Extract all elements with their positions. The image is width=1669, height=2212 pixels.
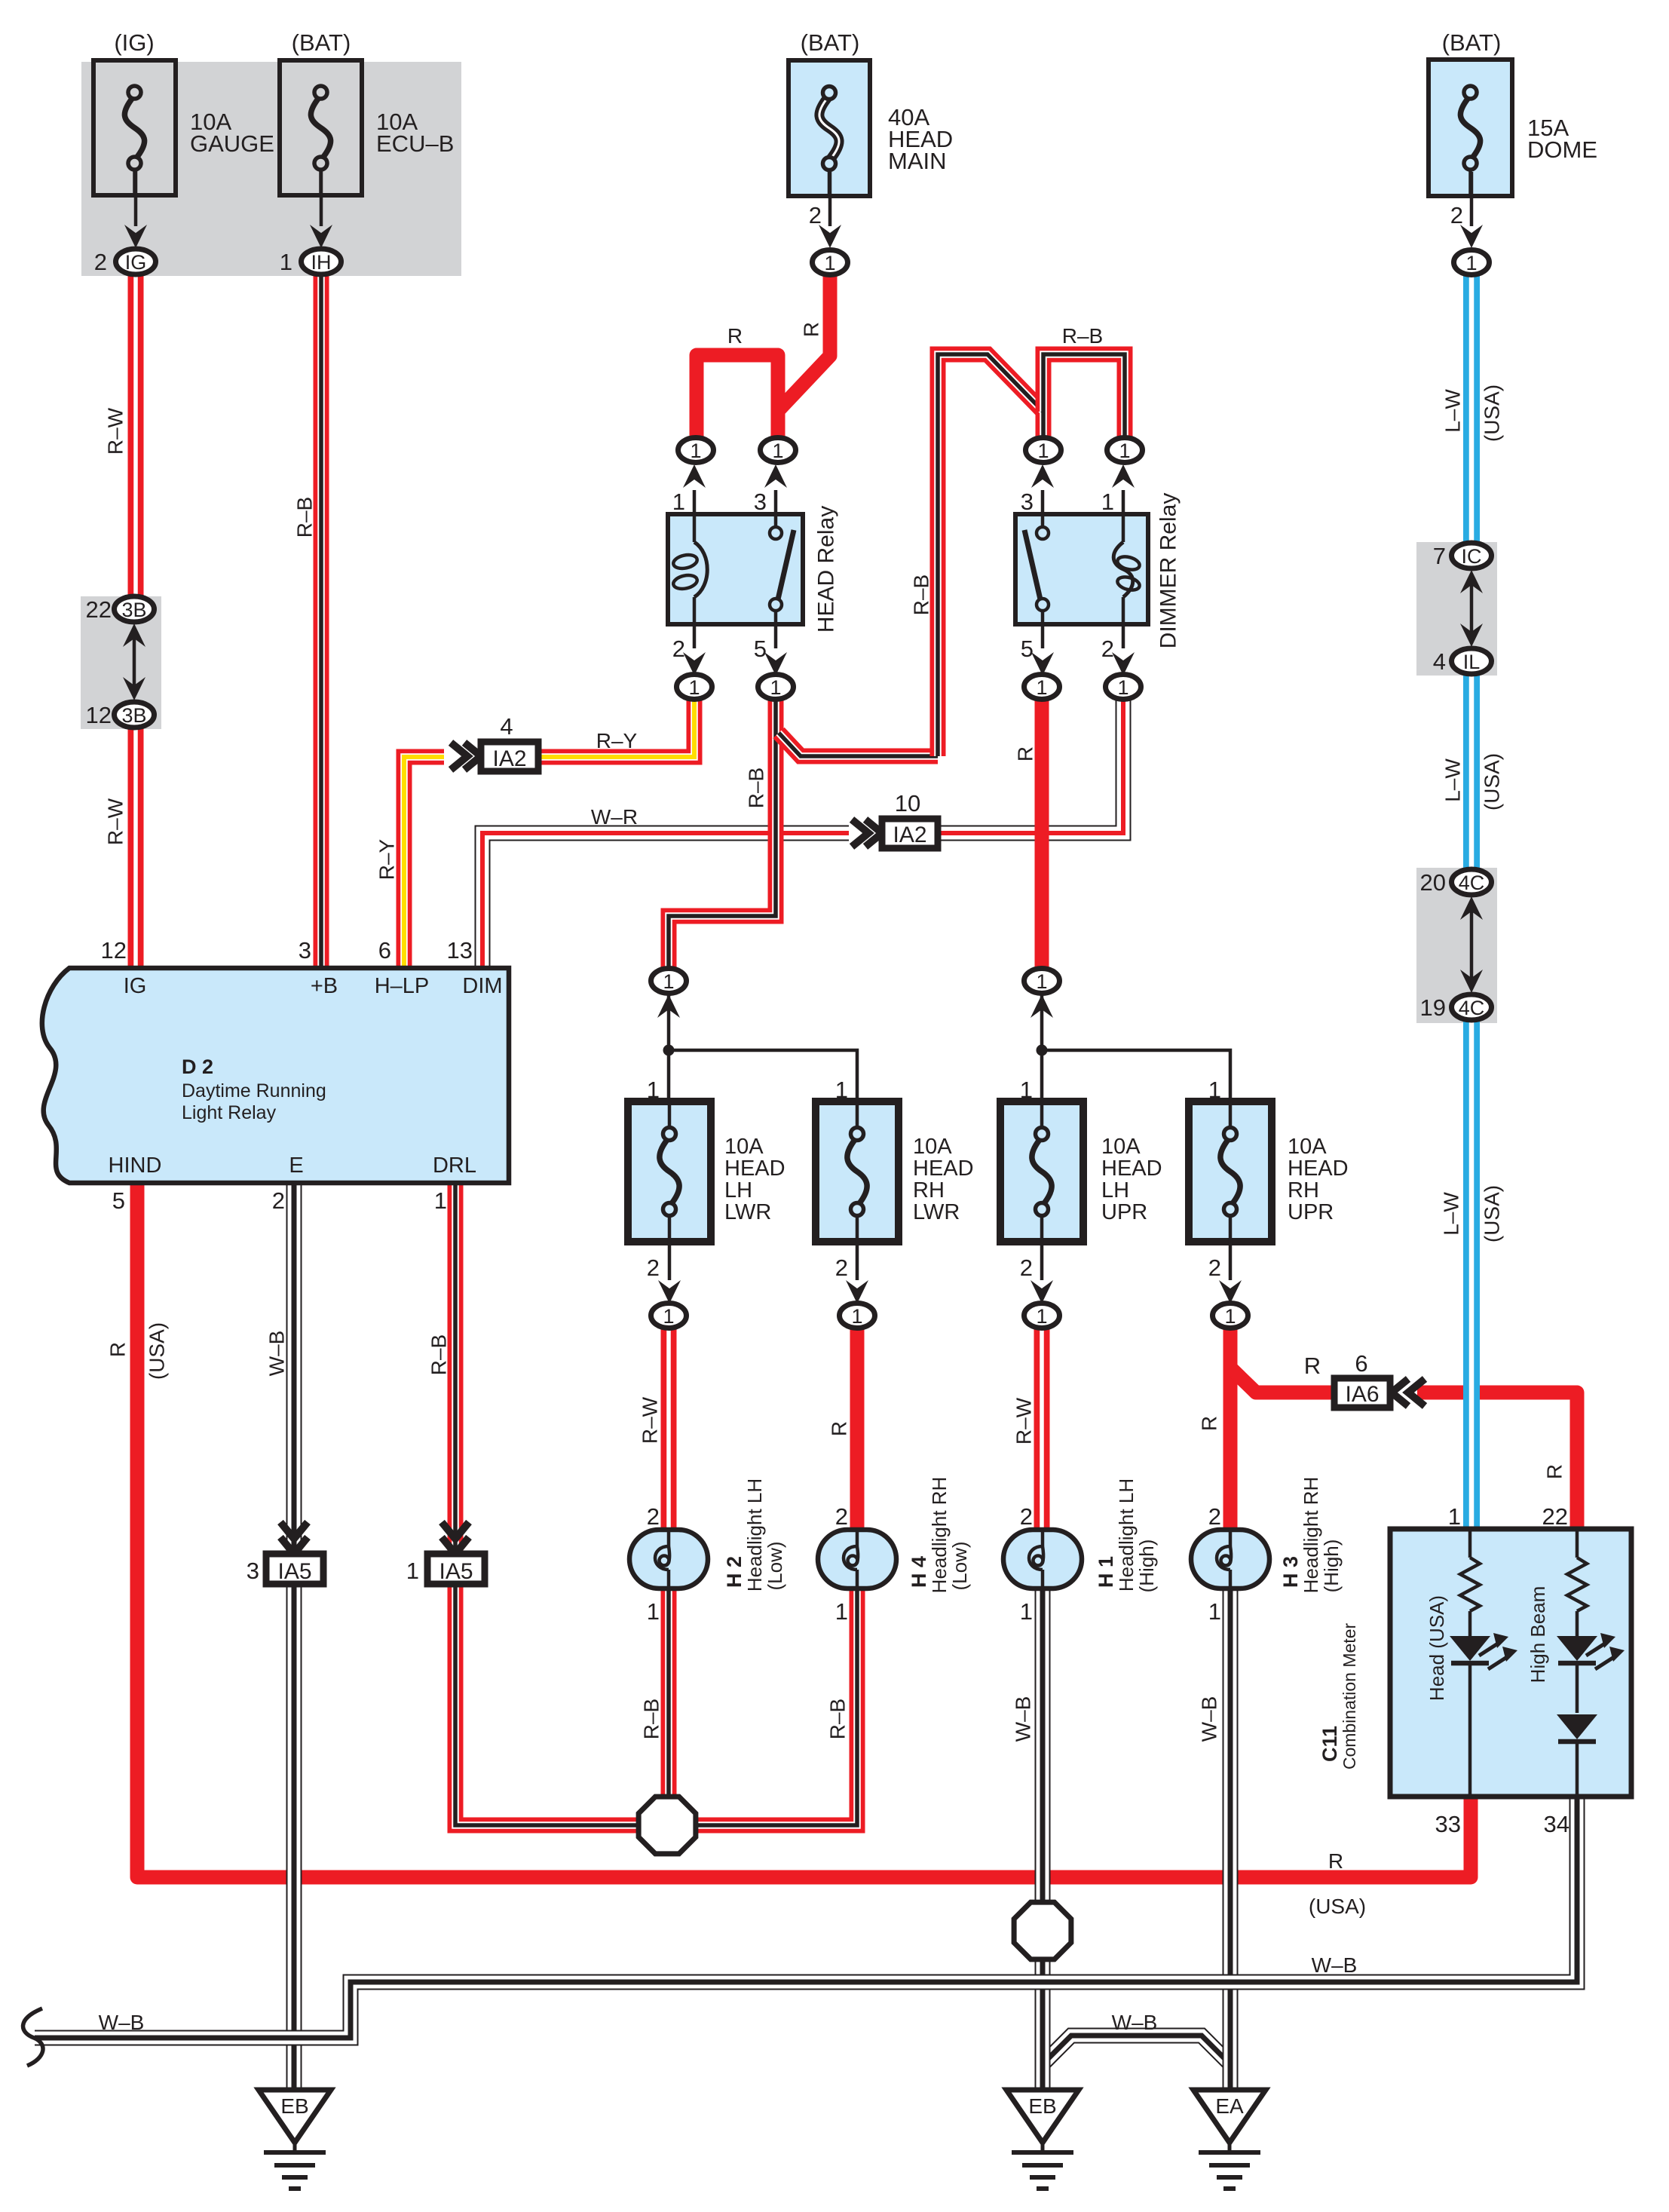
- svg-text:1: 1: [835, 1598, 848, 1625]
- svg-text:5: 5: [754, 636, 767, 662]
- ground EB left: [259, 2090, 331, 2189]
- label R-Y vertical: [375, 838, 399, 880]
- pin 1 HEAD relay with arrow and oval: [672, 464, 706, 515]
- wire W-B headlight H1 pin 1 through octagon to ground EB: [1035, 1589, 1051, 2090]
- LED Head (USA) inside C11: [1450, 1633, 1517, 1797]
- svg-text:1: 1: [1036, 1305, 1047, 1328]
- svg-text:(USA): (USA): [145, 1322, 169, 1380]
- svg-text:H 1: H 1: [1095, 1556, 1117, 1588]
- connector oval 1 under DOME fuse: [1454, 250, 1490, 275]
- svg-text:6: 6: [1355, 1350, 1367, 1377]
- svg-text:1: 1: [1020, 1077, 1033, 1103]
- wire R-W HEAD LH LWR fuse to headlight H2: [661, 1327, 677, 1530]
- wire R 40A HEAD MAIN to HEAD relay pins 1 and 3: [697, 273, 830, 439]
- svg-text:2: 2: [1450, 202, 1463, 228]
- label L-W (USA) lower: [1440, 1185, 1504, 1242]
- double arrow between 3B connectors: [123, 623, 145, 700]
- svg-text:1: 1: [672, 489, 685, 515]
- svg-text:LH: LH: [724, 1178, 752, 1203]
- svg-text:1: 1: [1036, 970, 1047, 993]
- svg-text:Light Relay: Light Relay: [182, 1102, 277, 1123]
- label R dimmer pin5 wire: [1014, 746, 1037, 761]
- label R-B right riser: [910, 574, 933, 615]
- wire W-B bridge between EB and EA grounds: [1043, 2036, 1230, 2064]
- connector oval 1 below HEAD relay pin 2: [677, 675, 712, 700]
- label W-B E wire: [265, 1331, 289, 1377]
- svg-text:DOME: DOME: [1527, 136, 1597, 163]
- svg-text:R–W: R–W: [1012, 1397, 1036, 1445]
- resistor High Beam inside C11: [1567, 1529, 1587, 1636]
- svg-text:GAUGE: GAUGE: [190, 130, 274, 157]
- svg-text:1: 1: [772, 440, 783, 462]
- node octagon joint W-B: [1014, 1902, 1071, 1959]
- connector oval 20 4C: [1420, 869, 1492, 896]
- wire W-B headlight H3 pin 1 to ground EA: [1223, 1589, 1239, 2090]
- svg-text:2: 2: [94, 249, 107, 275]
- svg-text:LWR: LWR: [724, 1200, 771, 1224]
- headlight bulb H2: [629, 1503, 708, 1625]
- svg-text:3: 3: [247, 1558, 259, 1584]
- svg-text:EB: EB: [1028, 2094, 1056, 2118]
- svg-text:HEAD: HEAD: [913, 1157, 974, 1181]
- connector oval 1 under 40A fuse: [813, 250, 848, 275]
- wire R branch to IA6 connector: [1230, 1368, 1336, 1392]
- wire R-B fuse ECU-B IH to D2 pin 3 +B: [314, 273, 329, 968]
- wire L-W connector IL to connector 4C-20: [1463, 672, 1480, 870]
- svg-text:R–B: R–B: [427, 1334, 451, 1375]
- svg-text:D 2: D 2: [182, 1055, 213, 1078]
- pin 2 arrow from GAUGE fuse into connector IG: [94, 171, 147, 275]
- svg-text:(USA): (USA): [1309, 1895, 1366, 1918]
- svg-text:R: R: [1198, 1416, 1221, 1431]
- pin 5 DIMMER relay with arrow and oval: [1021, 624, 1054, 676]
- wire W-B C11 pin 34 long run to left: [35, 1797, 1577, 2038]
- svg-text:1: 1: [1101, 489, 1114, 515]
- svg-text:L–W: L–W: [1440, 1192, 1463, 1236]
- pin numbers 1 above headlight fuses: [647, 1077, 1221, 1103]
- svg-text:LH: LH: [1101, 1178, 1129, 1203]
- fuse 10A HEAD RH UPR: [1189, 1101, 1349, 1242]
- svg-text:12: 12: [86, 702, 112, 728]
- svg-text:1: 1: [1208, 1598, 1221, 1625]
- svg-text:W–B: W–B: [1312, 1953, 1358, 1977]
- wire break squiggle W-B left end: [23, 2008, 43, 2066]
- svg-text:1: 1: [824, 252, 835, 274]
- pin 2 arrows below headlight fuses: [647, 1242, 1242, 1304]
- pin 5 HEAD relay with arrow and oval: [754, 624, 787, 676]
- svg-text:R–W: R–W: [104, 407, 127, 455]
- svg-text:5: 5: [112, 1187, 125, 1214]
- label W-B below H3: [1198, 1696, 1221, 1742]
- label H2 Headlight LH (Low): [723, 1478, 786, 1592]
- connector oval 4 IL: [1433, 648, 1492, 675]
- svg-text:R–B: R–B: [293, 497, 317, 538]
- relay HEAD Relay box: [668, 514, 803, 624]
- svg-text:1: 1: [1465, 252, 1477, 274]
- svg-text:2: 2: [1101, 636, 1114, 662]
- svg-text:H–LP: H–LP: [375, 974, 430, 998]
- label R C11 pin 22 wire: [1543, 1464, 1566, 1479]
- power tag (BAT) for ECU-B: [292, 29, 351, 56]
- connector oval 7 IC: [1433, 543, 1492, 569]
- svg-text:2: 2: [809, 202, 822, 228]
- label H1 Headlight LH (High): [1095, 1478, 1158, 1593]
- label R-B DRL wire: [427, 1334, 451, 1375]
- svg-text:IA2: IA2: [492, 746, 526, 771]
- svg-text:IA2: IA2: [893, 823, 926, 847]
- svg-text:EA: EA: [1215, 2094, 1244, 2118]
- label H4 Headlight RH (Low): [908, 1477, 971, 1594]
- svg-text:2: 2: [672, 636, 685, 662]
- connector oval 19 4C: [1420, 994, 1492, 1021]
- svg-text:(USA): (USA): [1481, 1185, 1504, 1242]
- connector oval 1 above HEAD LH fuses junction: [651, 969, 687, 1019]
- gray connector block 4C: [1416, 868, 1497, 1023]
- label HEAD Relay: [814, 506, 839, 633]
- LED High Beam inside C11: [1557, 1633, 1625, 1713]
- label R-B below H4: [826, 1699, 850, 1739]
- svg-text:2: 2: [835, 1503, 848, 1530]
- svg-text:3: 3: [1021, 489, 1034, 515]
- fuse 10A HEAD LH UPR: [1000, 1101, 1162, 1242]
- connector IA5-3: [247, 1522, 323, 1584]
- label R-W above H1: [1012, 1397, 1036, 1445]
- svg-text:Daytime Running: Daytime Running: [182, 1080, 326, 1101]
- svg-text:4: 4: [1433, 648, 1446, 675]
- label R-Y horizontal: [596, 729, 638, 752]
- wire W-R D2 pin 13 DIM to IA2-10 to DIMMER relay pin 2: [482, 697, 1123, 968]
- wire R HEAD RH LWR fuse to headlight H4: [850, 1327, 865, 1530]
- label R at IA6: [1304, 1353, 1321, 1379]
- pin 2 arrow from 40A fuse into connector 1: [809, 172, 841, 248]
- svg-text:1: 1: [647, 1598, 660, 1625]
- svg-text:HIND: HIND: [109, 1153, 162, 1178]
- svg-text:3: 3: [754, 489, 767, 515]
- svg-text:(BAT): (BAT): [292, 29, 351, 56]
- svg-text:Headlight RH: Headlight RH: [928, 1477, 951, 1594]
- svg-text:LWR: LWR: [913, 1200, 960, 1224]
- svg-text:R: R: [106, 1342, 130, 1357]
- pin 2 HEAD relay with arrow and oval: [672, 624, 706, 676]
- svg-text:1: 1: [835, 1077, 848, 1103]
- svg-text:10A: 10A: [1288, 1135, 1327, 1159]
- node junction dot LH UPR: [1037, 1045, 1048, 1056]
- svg-text:R–B: R–B: [640, 1699, 663, 1739]
- resistor Head (USA) inside C11: [1460, 1529, 1480, 1636]
- svg-text:1: 1: [434, 1187, 447, 1214]
- fuse 10A GAUGE: [93, 60, 274, 195]
- svg-text:22: 22: [86, 596, 112, 623]
- wire R-W junction oval to HEAD LH LWR fuse pin 1: [667, 991, 671, 1048]
- connector oval 1 below DIMMER relay pin 2: [1106, 675, 1141, 700]
- connector oval 1 above HEAD relay pin 1: [678, 438, 714, 463]
- gray connector block (top fuses IG/BAT): [81, 62, 461, 276]
- svg-text:R: R: [1328, 1849, 1343, 1873]
- svg-text:1: 1: [406, 1558, 419, 1584]
- pin 1 DIMMER relay with arrow and oval: [1101, 464, 1135, 515]
- connector IA6-6: [1334, 1350, 1425, 1408]
- svg-text:IH: IH: [311, 251, 332, 274]
- svg-text:Headlight LH: Headlight LH: [1115, 1478, 1138, 1592]
- svg-text:1: 1: [770, 676, 781, 699]
- svg-text:13: 13: [447, 937, 473, 964]
- pin numbers on C11: [1435, 1503, 1569, 1837]
- svg-text:(High): (High): [1320, 1540, 1343, 1593]
- svg-text:MAIN: MAIN: [888, 148, 947, 174]
- svg-text:RH: RH: [1288, 1178, 1319, 1203]
- label W-B long run: [1312, 1953, 1358, 1977]
- svg-text:(Low): (Low): [764, 1541, 786, 1590]
- svg-text:1: 1: [1117, 676, 1128, 699]
- svg-text:(BAT): (BAT): [801, 29, 860, 56]
- label R-W lower segment: [104, 798, 127, 845]
- svg-text:4C: 4C: [1459, 997, 1485, 1019]
- label W-B left horizontal: [99, 2011, 145, 2034]
- svg-text:Headlight LH: Headlight LH: [743, 1478, 766, 1592]
- svg-text:12: 12: [101, 937, 127, 964]
- svg-text:1: 1: [1020, 1598, 1033, 1625]
- svg-text:UPR: UPR: [1288, 1200, 1334, 1224]
- svg-text:H 3: H 3: [1279, 1556, 1302, 1588]
- svg-text:C11: C11: [1318, 1726, 1341, 1762]
- svg-text:H 2: H 2: [723, 1556, 746, 1588]
- svg-text:34: 34: [1544, 1811, 1569, 1837]
- connector oval 1 above DIMMER relay pin 3: [1026, 438, 1061, 463]
- svg-text:3B: 3B: [121, 599, 146, 621]
- svg-text:1: 1: [1224, 1305, 1236, 1328]
- label R (USA) HIND wire: [106, 1322, 169, 1380]
- label Head (USA): [1426, 1595, 1448, 1701]
- svg-text:20: 20: [1420, 869, 1446, 896]
- svg-text:(BAT): (BAT): [1442, 29, 1502, 56]
- svg-text:IA6: IA6: [1345, 1382, 1379, 1407]
- connector IA2-4: [451, 713, 538, 771]
- label R-B head relay output: [745, 767, 768, 808]
- label R 40A feed diagonal: [800, 322, 823, 337]
- svg-text:10A: 10A: [913, 1135, 952, 1159]
- wire R-B headlight H2 pin 1 down to octagon joint: [661, 1589, 677, 1795]
- svg-text:1: 1: [1208, 1077, 1221, 1103]
- label DIMMER Relay: [1156, 493, 1181, 649]
- svg-text:R–B: R–B: [910, 574, 933, 615]
- svg-text:1: 1: [1119, 440, 1130, 462]
- wire black junction to RH LWR fuse pin 1: [669, 1050, 857, 1101]
- svg-text:HEAD: HEAD: [1288, 1157, 1349, 1181]
- svg-text:2: 2: [1208, 1255, 1221, 1281]
- svg-text:7: 7: [1433, 543, 1446, 569]
- wire R HIND D2 pin 5 down and across to C11 pin 33: [137, 1183, 1471, 1877]
- svg-text:IA5: IA5: [277, 1559, 311, 1584]
- power tag (BAT) for DOME: [1442, 29, 1502, 56]
- connector oval 1 above DIMMER relay pin 1: [1107, 438, 1143, 463]
- svg-text:3B: 3B: [121, 704, 146, 727]
- double arrow between 4C connectors: [1460, 896, 1483, 993]
- label R-B +B wire: [293, 497, 317, 538]
- pin 2 arrow from DOME fuse into connector 1: [1450, 172, 1483, 248]
- svg-text:(USA): (USA): [1481, 753, 1504, 810]
- connector oval 1 below DIMMER relay pin 5: [1024, 675, 1060, 700]
- svg-text:Headlight RH: Headlight RH: [1300, 1477, 1322, 1594]
- connector oval 22 3B: [86, 596, 155, 623]
- wire R-B right riser up to DIMMER relay feed: [938, 354, 1043, 756]
- connector oval 1 above HEAD UPR fuses junction: [1024, 969, 1060, 1019]
- wire R HEAD RH UPR fuse to headlight H3 with IA6 branch: [1223, 1327, 1238, 1530]
- connector IA5-1: [406, 1522, 485, 1584]
- fuse 10A ECU-B: [280, 60, 454, 195]
- svg-text:IA5: IA5: [439, 1559, 473, 1584]
- fuse 15A DOME: [1429, 60, 1597, 196]
- svg-text:1: 1: [663, 970, 674, 993]
- wire R-W 3B-12 to D2 pin 12 IG: [128, 726, 144, 968]
- svg-text:1: 1: [688, 676, 700, 699]
- svg-text:4: 4: [500, 713, 513, 740]
- label R above H3: [1198, 1416, 1221, 1431]
- label W-R horizontal: [591, 805, 638, 829]
- node octagon joint R-B: [639, 1797, 696, 1854]
- svg-text:L–W: L–W: [1441, 758, 1465, 802]
- svg-text:1: 1: [1448, 1503, 1461, 1530]
- svg-text:22: 22: [1542, 1503, 1568, 1530]
- relay DIMMER Relay box: [1015, 514, 1148, 624]
- connector oval IH: [302, 249, 341, 274]
- connector oval 12 3B: [86, 702, 155, 728]
- label C11 Combination Meter: [1318, 1623, 1359, 1770]
- svg-text:1: 1: [280, 249, 292, 275]
- svg-text:IG: IG: [125, 251, 147, 274]
- svg-text:2: 2: [647, 1503, 660, 1530]
- label W-B below H1: [1012, 1696, 1035, 1742]
- svg-text:W–B: W–B: [1112, 2011, 1158, 2034]
- pin 3 HEAD relay with arrow and oval: [754, 464, 787, 515]
- svg-text:DIM: DIM: [462, 974, 502, 998]
- svg-text:1: 1: [647, 1077, 660, 1103]
- svg-text:10A: 10A: [1101, 1135, 1141, 1159]
- svg-text:ECU–B: ECU–B: [376, 130, 454, 157]
- connector oval 1 above HEAD relay pin 3: [761, 438, 796, 463]
- svg-text:HEAD: HEAD: [724, 1157, 786, 1181]
- wire L-W connector 4C-19 down to C11 pin 1: [1463, 1019, 1480, 1529]
- pin 2 DIMMER relay with arrow and oval: [1101, 624, 1135, 676]
- svg-text:DRL: DRL: [433, 1153, 476, 1178]
- label R-W above H2: [639, 1396, 662, 1444]
- svg-text:33: 33: [1435, 1811, 1461, 1837]
- label R-B top link: [1062, 324, 1103, 348]
- svg-text:3: 3: [299, 937, 311, 964]
- svg-text:1: 1: [1037, 440, 1049, 462]
- label High Beam: [1527, 1586, 1549, 1684]
- svg-text:IG: IG: [124, 974, 147, 998]
- ground EB right: [1006, 2090, 1079, 2189]
- svg-text:2: 2: [272, 1187, 285, 1214]
- svg-text:R–B: R–B: [1062, 324, 1103, 348]
- headlight bulb H4: [818, 1503, 896, 1625]
- svg-text:R–W: R–W: [104, 798, 127, 845]
- wire R IA6 to C11 pin 22: [1417, 1392, 1577, 1529]
- wire W-B D2 pin E down through IA5-3 to ground EB: [286, 1183, 302, 2090]
- relay D2 Daytime Running Light Relay: [42, 968, 509, 1183]
- node junction dot LH LWR: [663, 1045, 675, 1056]
- svg-text:L–W: L–W: [1441, 389, 1465, 433]
- svg-text:2: 2: [1020, 1255, 1033, 1281]
- wire R-W fuse GAUGE IG to 3B-22: [128, 273, 144, 598]
- svg-text:DIMMER Relay: DIMMER Relay: [1156, 493, 1181, 649]
- svg-text:+B: +B: [311, 974, 338, 998]
- svg-text:R: R: [828, 1421, 851, 1436]
- wire black junction oval to HEAD LH UPR fuse pin 1: [1040, 991, 1044, 1048]
- svg-text:EB: EB: [280, 2094, 308, 2118]
- label R-B below H2: [640, 1699, 663, 1739]
- svg-text:(IG): (IG): [114, 29, 154, 56]
- connector oval 1 below HEAD relay pin 5: [758, 675, 794, 700]
- power tag (BAT) for HEAD MAIN: [801, 29, 860, 56]
- wire R-B top link to DIMMER pin 3 and pin 1 ovals: [1043, 354, 1125, 439]
- wire R DIMMER relay pin 5 down to junction oval: [1035, 697, 1049, 970]
- label R-W upper segment: [104, 407, 127, 455]
- svg-text:R: R: [1014, 746, 1037, 761]
- pin 1 arrow from ECU-B fuse into connector IH: [280, 171, 332, 275]
- wire R-B HEAD relay pin 5 down with jog to junction oval: [669, 697, 776, 968]
- svg-text:1: 1: [1036, 676, 1047, 699]
- svg-text:R: R: [800, 322, 823, 337]
- label R 40A feed horizontal: [727, 324, 743, 348]
- label H3 Headlight RH (High): [1279, 1477, 1343, 1594]
- svg-text:IC: IC: [1462, 545, 1482, 568]
- svg-text:R–B: R–B: [745, 767, 768, 808]
- svg-text:W–B: W–B: [1198, 1696, 1221, 1742]
- fuse 40A HEAD MAIN: [789, 60, 953, 196]
- svg-text:R: R: [1543, 1464, 1566, 1479]
- svg-text:10A: 10A: [724, 1135, 764, 1159]
- svg-text:2: 2: [835, 1255, 848, 1281]
- label L-W (USA) upper: [1441, 384, 1504, 442]
- svg-text:W–B: W–B: [99, 2011, 145, 2034]
- wire R-B D2 pin DRL down through IA5-1 to octagon joint: [455, 1183, 638, 1825]
- connector oval IG: [116, 249, 156, 274]
- pin numbers on D2 relay: [101, 937, 473, 1214]
- svg-text:E: E: [289, 1153, 303, 1178]
- svg-text:1: 1: [851, 1305, 862, 1328]
- svg-text:1: 1: [690, 440, 701, 462]
- label R (USA) bottom run: [1309, 1849, 1366, 1918]
- svg-text:(High): (High): [1135, 1540, 1158, 1593]
- diode below High Beam LED inside C11: [1557, 1714, 1597, 1797]
- svg-text:2: 2: [647, 1255, 660, 1281]
- svg-text:IL: IL: [1463, 651, 1481, 673]
- power tag (IG): [114, 29, 154, 56]
- gray connector block 3B: [81, 596, 161, 729]
- wire R-Y D2 pin 6 H-LP to IA2-4 to HEAD relay pin 2: [404, 697, 694, 968]
- svg-text:R: R: [1304, 1353, 1321, 1379]
- label W-B bridge: [1112, 2011, 1158, 2034]
- svg-text:4C: 4C: [1459, 872, 1485, 894]
- svg-text:6: 6: [378, 937, 391, 964]
- gray connector block IC/IL: [1416, 542, 1497, 676]
- svg-text:10: 10: [895, 790, 920, 816]
- svg-text:W–R: W–R: [591, 805, 638, 829]
- label L-W (USA) middle: [1441, 753, 1504, 810]
- double arrow between IC and IL: [1460, 570, 1483, 647]
- svg-text:R–Y: R–Y: [596, 729, 638, 752]
- svg-text:R: R: [727, 324, 743, 348]
- svg-text:High Beam: High Beam: [1527, 1586, 1549, 1684]
- svg-text:HEAD: HEAD: [1101, 1157, 1162, 1181]
- connector ovals 1 below headlight fuses: [651, 1304, 1248, 1328]
- wire L-W 15A DOME to connector IC: [1463, 273, 1480, 544]
- svg-text:R–B: R–B: [826, 1699, 850, 1739]
- wire R-W HEAD LH UPR fuse to headlight H1: [1034, 1327, 1050, 1530]
- svg-text:2: 2: [1020, 1503, 1033, 1530]
- svg-text:R–Y: R–Y: [375, 838, 399, 880]
